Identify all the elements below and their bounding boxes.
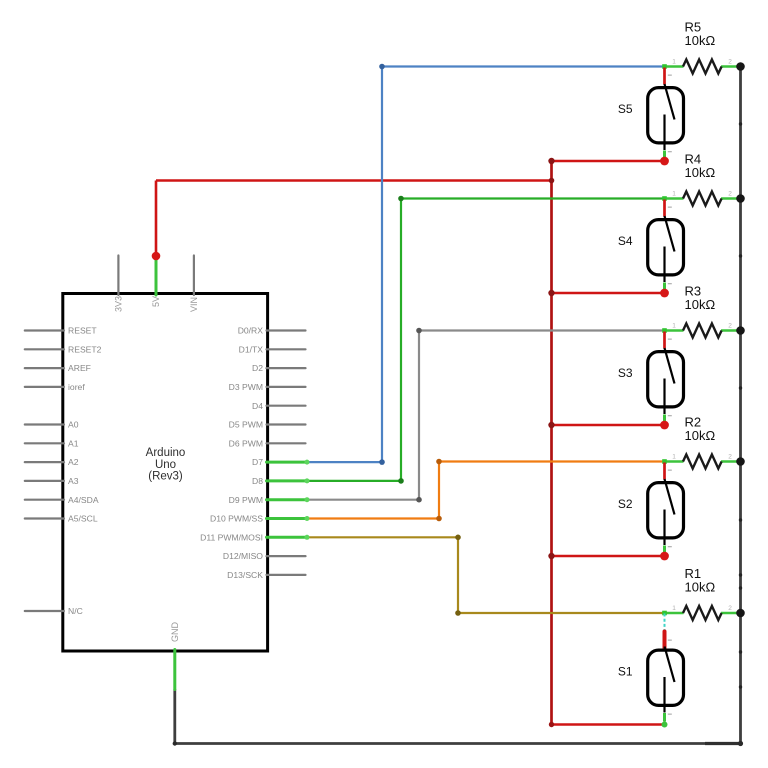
wire D8 to S4 (green) bbox=[307, 196, 665, 484]
arduino pin AREF bbox=[25, 363, 91, 373]
svg-text:10kΩ: 10kΩ bbox=[685, 165, 716, 180]
svg-text:2: 2 bbox=[728, 605, 732, 612]
junction dot S5 bottom at bus bbox=[548, 158, 554, 164]
svg-text:A3: A3 bbox=[68, 476, 79, 486]
svg-text:1: 1 bbox=[672, 191, 676, 198]
junction dot S4 bottom pin bbox=[660, 289, 669, 298]
svg-text:D10 PWM/SS: D10 PWM/SS bbox=[210, 514, 263, 524]
svg-text:10kΩ: 10kΩ bbox=[685, 428, 716, 443]
resistor R5 10k bbox=[665, 20, 741, 74]
svg-text:N/C: N/C bbox=[68, 606, 83, 616]
svg-text:A5/SCL: A5/SCL bbox=[68, 514, 98, 524]
arduino pin D10 PWM/SS bbox=[210, 514, 310, 524]
wire red bus vertical bbox=[550, 161, 553, 725]
svg-text:10kΩ: 10kΩ bbox=[685, 297, 716, 312]
arduino pin A1 bbox=[25, 438, 79, 448]
wire bus to S3 bottom bbox=[552, 424, 665, 427]
node R1 pin2 on rail bbox=[736, 609, 745, 618]
arduino pin A5/SCL bbox=[25, 514, 98, 524]
node R2 pin2 on rail bbox=[736, 457, 745, 466]
arduino pin D13/SCK bbox=[227, 570, 305, 580]
svg-text:A0: A0 bbox=[68, 420, 79, 430]
svg-text:D1/TX: D1/TX bbox=[239, 344, 264, 354]
junction dot S1 bottom pin bbox=[662, 722, 668, 728]
junction dot S3 bottom at bus bbox=[548, 422, 554, 428]
svg-text:D0/RX: D0/RX bbox=[238, 326, 264, 336]
arduino pin D3 PWM bbox=[229, 382, 306, 392]
arduino pin A3 bbox=[25, 476, 79, 486]
switch S3 bbox=[618, 332, 684, 423]
wire D9 to S3 (gray) bbox=[307, 328, 665, 503]
svg-text:D2: D2 bbox=[252, 363, 263, 373]
arduino pin D7 bbox=[252, 457, 310, 467]
svg-text:1: 1 bbox=[672, 605, 676, 612]
arduino pin N/C bbox=[25, 606, 83, 616]
junction dot S2 bottom at bus bbox=[548, 553, 554, 559]
node R3 pin2 on rail bbox=[736, 326, 745, 335]
svg-text:S3: S3 bbox=[618, 366, 633, 380]
arduino pin D1/TX bbox=[239, 344, 306, 354]
node R4 pin2 on rail bbox=[736, 194, 745, 203]
junction dot S5 bottom pin bbox=[660, 157, 669, 166]
wire bus to S4 bottom bbox=[552, 292, 665, 295]
arduino pin D0/RX bbox=[238, 326, 306, 336]
switch S5 bbox=[618, 68, 684, 159]
svg-text:D11 PWM/MOSI: D11 PWM/MOSI bbox=[200, 532, 263, 542]
svg-text:D13/SCK: D13/SCK bbox=[227, 570, 263, 580]
arduino pin RESET bbox=[25, 326, 98, 336]
resistor R4 10k bbox=[665, 152, 741, 206]
svg-text:2: 2 bbox=[728, 191, 732, 198]
svg-text:1: 1 bbox=[672, 59, 676, 66]
arduino pin A4/SDA bbox=[25, 495, 99, 505]
svg-text:D8: D8 bbox=[252, 476, 263, 486]
wire bus to S2 bottom bbox=[552, 555, 665, 558]
svg-text:D12/MISO: D12/MISO bbox=[223, 551, 263, 561]
arduino pin 3V3 bbox=[113, 256, 123, 313]
svg-text:GND: GND bbox=[170, 622, 180, 643]
svg-text:10kΩ: 10kΩ bbox=[685, 580, 716, 595]
svg-text:1: 1 bbox=[672, 323, 676, 330]
node R3 pin1 junction bbox=[662, 328, 667, 333]
svg-text:1: 1 bbox=[672, 454, 676, 461]
svg-text:A1: A1 bbox=[68, 438, 79, 448]
switch S2 bbox=[618, 463, 684, 554]
node R5 pin1 junction bbox=[662, 64, 667, 69]
arduino pin D9 PWM bbox=[229, 495, 310, 505]
wire 5V feed from arduino to bus bbox=[156, 181, 552, 257]
svg-text:D9 PWM: D9 PWM bbox=[229, 495, 263, 505]
svg-text:2: 2 bbox=[728, 323, 732, 330]
arduino pin A2 bbox=[25, 457, 79, 467]
arduino pin RESET2 bbox=[25, 344, 102, 354]
svg-text:S5: S5 bbox=[618, 102, 633, 116]
svg-text:2: 2 bbox=[728, 59, 732, 66]
arduino pin D6 PWM bbox=[229, 438, 306, 448]
node R5 pin2 on rail bbox=[736, 62, 745, 71]
resistor R2 10k bbox=[665, 415, 741, 469]
wire bus to S1 bottom bbox=[552, 723, 665, 726]
node R1 pin1 junction bbox=[662, 611, 667, 616]
arduino pin 5V bbox=[151, 256, 161, 307]
switch S4 bbox=[618, 200, 684, 291]
svg-text:D7: D7 bbox=[252, 457, 263, 467]
arduino pin VIN bbox=[189, 256, 199, 313]
wire D7 to S5 (blue) bbox=[307, 64, 665, 465]
svg-text:A2: A2 bbox=[68, 457, 79, 467]
svg-text:A4/SDA: A4/SDA bbox=[68, 495, 99, 505]
svg-text:S1: S1 bbox=[618, 665, 633, 679]
arduino pin D2 bbox=[252, 363, 306, 373]
junction dot at 5V pin bbox=[152, 252, 161, 261]
svg-text:RESET2: RESET2 bbox=[68, 344, 102, 354]
arduino pin A0 bbox=[25, 420, 79, 430]
svg-text:D6 PWM: D6 PWM bbox=[229, 438, 263, 448]
svg-text:10kΩ: 10kΩ bbox=[685, 33, 716, 48]
wire D11 to S1 (olive) bbox=[307, 535, 665, 616]
svg-text:ioref: ioref bbox=[68, 382, 85, 392]
svg-text:5V: 5V bbox=[151, 296, 161, 307]
wire bus to S5 bottom bbox=[552, 160, 665, 163]
arduino pin D4 bbox=[252, 401, 306, 411]
arduino pin D12/MISO bbox=[223, 551, 306, 561]
resistor R3 10k bbox=[665, 284, 741, 338]
svg-text:D3 PWM: D3 PWM bbox=[229, 382, 263, 392]
svg-text:S4: S4 bbox=[618, 234, 633, 248]
arduino pin D8 bbox=[252, 476, 310, 486]
arduino U1 body bbox=[63, 294, 268, 652]
arduino pin D11 PWM/MOSI bbox=[200, 532, 309, 542]
svg-text:RESET: RESET bbox=[68, 326, 97, 336]
node R2 pin1 junction bbox=[662, 459, 667, 464]
svg-text:S2: S2 bbox=[618, 497, 633, 511]
junction dot S4 bottom at bus bbox=[548, 290, 554, 296]
switch S1 bbox=[618, 614, 684, 722]
junction dot S3 bottom pin bbox=[660, 421, 669, 430]
junction dot bus/5V bbox=[549, 178, 555, 184]
right rail segment marks bbox=[739, 122, 742, 688]
arduino pin GND bbox=[170, 622, 180, 690]
wire D10 to S2 (orange) bbox=[307, 459, 665, 522]
svg-text:D5 PWM: D5 PWM bbox=[229, 420, 263, 430]
svg-text:AREF: AREF bbox=[68, 363, 91, 373]
svg-text:Arduino: Arduino bbox=[146, 447, 186, 459]
junction dot S1 bottom at bus bbox=[549, 722, 554, 727]
node R4 pin1 junction bbox=[662, 196, 667, 201]
svg-text:D4: D4 bbox=[252, 401, 263, 411]
svg-text:2: 2 bbox=[728, 454, 732, 461]
arduino pin ioref bbox=[25, 382, 86, 392]
junction dot S2 bottom pin bbox=[660, 552, 669, 561]
svg-text:3V3: 3V3 bbox=[113, 296, 123, 312]
arduino pin D5 PWM bbox=[229, 420, 306, 430]
svg-text:Uno: Uno bbox=[155, 459, 176, 471]
resistor R1 10k bbox=[665, 566, 741, 620]
wire GND net: left drop, bottom rail, right rail bbox=[173, 67, 744, 747]
svg-text:(Rev3): (Rev3) bbox=[148, 471, 183, 483]
svg-text:VIN: VIN bbox=[189, 297, 199, 312]
